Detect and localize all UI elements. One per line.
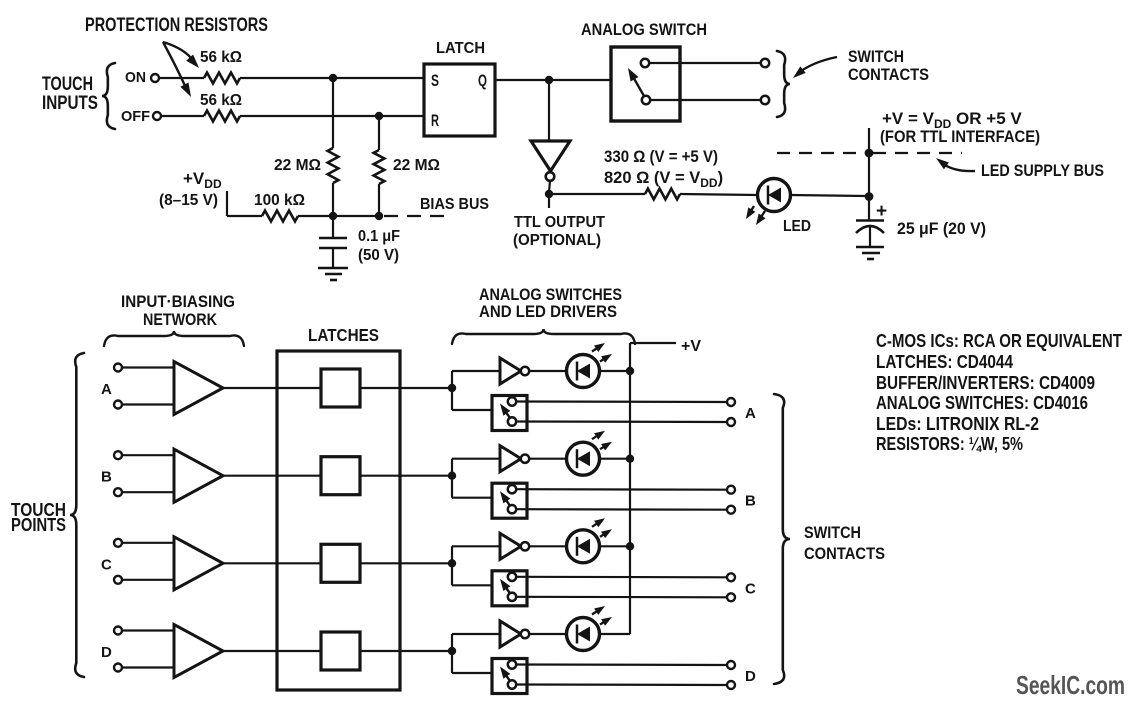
svg-text:TOUCH: TOUCH xyxy=(42,74,93,95)
svg-text:(OPTIONAL): (OPTIONAL) xyxy=(513,232,601,249)
svg-text:22 MΩ: 22 MΩ xyxy=(393,157,440,174)
svg-text:S: S xyxy=(431,72,439,90)
svg-text:56 kΩ: 56 kΩ xyxy=(200,49,242,66)
svg-text:A: A xyxy=(101,381,112,398)
svg-text:+: + xyxy=(876,201,887,222)
svg-text:B: B xyxy=(101,469,112,486)
svg-text:PROTECTION RESISTORS: PROTECTION RESISTORS xyxy=(85,15,268,36)
svg-text:+V: +V xyxy=(681,338,701,355)
svg-text:Q: Q xyxy=(478,72,487,90)
svg-text:(8–15 V): (8–15 V) xyxy=(159,192,218,209)
svg-text:LATCH: LATCH xyxy=(436,40,485,57)
svg-text:C: C xyxy=(745,580,756,597)
svg-text:LEDs: LITRONIX RL-2: LEDs: LITRONIX RL-2 xyxy=(876,414,1039,434)
svg-text:BUFFER/INVERTERS: CD4009: BUFFER/INVERTERS: CD4009 xyxy=(876,373,1095,393)
svg-text:0.1 μF: 0.1 μF xyxy=(358,228,400,245)
svg-text:22 MΩ: 22 MΩ xyxy=(274,157,321,174)
svg-text:D: D xyxy=(101,644,112,661)
svg-text:LATCHES: CD4044: LATCHES: CD4044 xyxy=(876,352,1013,372)
svg-text:CONTACTS: CONTACTS xyxy=(804,544,885,563)
svg-text:330 Ω (V = +5 V): 330 Ω (V = +5 V) xyxy=(604,148,718,166)
svg-text:CONTACTS: CONTACTS xyxy=(848,66,929,84)
svg-text:A: A xyxy=(745,405,756,422)
svg-text:RESISTORS: ¼W, 5%: RESISTORS: ¼W, 5% xyxy=(876,434,1023,454)
svg-text:OFF: OFF xyxy=(121,108,150,125)
svg-text:INPUT·BIASING: INPUT·BIASING xyxy=(121,293,235,311)
svg-text:LED SUPPLY BUS: LED SUPPLY BUS xyxy=(981,161,1104,180)
svg-text:D: D xyxy=(745,668,756,685)
svg-text:25 μF (20 V): 25 μF (20 V) xyxy=(897,219,986,238)
svg-text:ON: ON xyxy=(125,69,146,86)
svg-text:ANALOG SWITCH: ANALOG SWITCH xyxy=(581,20,707,39)
svg-text:R: R xyxy=(431,112,439,130)
svg-text:AND LED DRIVERS: AND LED DRIVERS xyxy=(479,302,617,321)
svg-text:BIAS BUS: BIAS BUS xyxy=(420,196,489,213)
svg-text:56 kΩ: 56 kΩ xyxy=(200,92,242,109)
svg-text:B: B xyxy=(745,493,756,510)
svg-text:(50 V): (50 V) xyxy=(358,247,399,264)
svg-text:LED: LED xyxy=(783,218,811,235)
svg-text:INPUTS: INPUTS xyxy=(42,93,98,114)
svg-text:SeekIC.com: SeekIC.com xyxy=(1016,670,1125,700)
svg-text:POINTS: POINTS xyxy=(11,515,66,535)
svg-text:NETWORK: NETWORK xyxy=(143,311,217,329)
svg-text:C-MOS ICs: RCA OR EQUIVALENT: C-MOS ICs: RCA OR EQUIVALENT xyxy=(876,331,1122,351)
svg-text:ANALOG SWITCHES: CD4016: ANALOG SWITCHES: CD4016 xyxy=(876,393,1088,413)
svg-text:SWITCH: SWITCH xyxy=(848,48,904,66)
svg-text:TTL OUTPUT: TTL OUTPUT xyxy=(514,214,605,231)
svg-text:C: C xyxy=(101,556,112,573)
svg-text:(FOR TTL INTERFACE): (FOR TTL INTERFACE) xyxy=(880,127,1040,146)
svg-text:LATCHES: LATCHES xyxy=(308,325,379,345)
svg-text:100 kΩ: 100 kΩ xyxy=(254,192,305,209)
svg-text:SWITCH: SWITCH xyxy=(804,523,861,542)
